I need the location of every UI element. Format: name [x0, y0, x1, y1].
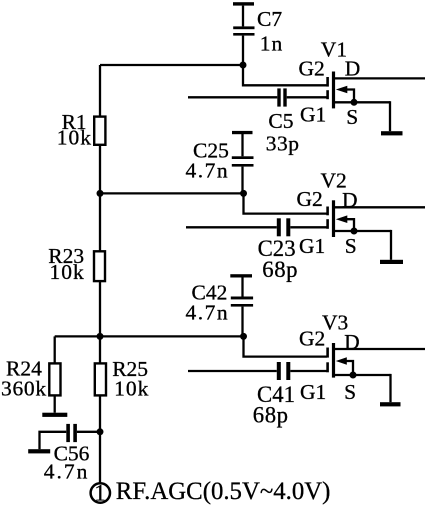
label R1: [62, 110, 87, 134]
svg-text:D: D: [345, 57, 361, 81]
node junction bus/stage2: [97, 190, 104, 197]
label D of V3: [344, 330, 360, 354]
wire source-to-ground V3: [389, 374, 391, 402]
wire stage2 rail to C25: [100, 192, 245, 194]
wire bus R25-to-node1 segment: [99, 395, 101, 484]
wire source-to-ground V2: [390, 230, 392, 260]
label D of V1: [345, 57, 361, 81]
ground above C7: [233, 2, 254, 5]
label G1 of V3: [300, 380, 326, 404]
svg-text:68p: 68p: [253, 402, 289, 427]
svg-text:1: 1: [94, 481, 106, 506]
label C5 value 33p: [266, 132, 300, 156]
svg-text:33p: 33p: [266, 132, 300, 156]
wire G1 input V1: [188, 96, 277, 98]
svg-text:C7: C7: [257, 7, 282, 31]
wire C56 left elbow: [40, 432, 67, 449]
label C56: [54, 442, 90, 466]
ground V2 source: [380, 260, 403, 264]
label R25 value 10k: [114, 376, 149, 400]
label S of V2: [345, 234, 357, 258]
wire R24 top stem: [54, 336, 56, 364]
label C42: [192, 281, 228, 305]
wire source-to-ground V1: [389, 101, 391, 131]
wire bus R23-to-R25 segment: [99, 280, 101, 364]
wire bus top segment: [99, 65, 101, 118]
svg-text:4.7n: 4.7n: [186, 300, 230, 324]
svg-text:C5: C5: [268, 109, 293, 133]
wire drain V1: [335, 77, 425, 79]
resistor R23: [94, 251, 105, 281]
node junction C56/bus: [97, 428, 104, 435]
label C7 value 1n: [260, 32, 284, 56]
transistor V1: [328, 72, 390, 109]
label C41: [257, 382, 295, 407]
label V1: [321, 38, 347, 62]
svg-text:RF.AGC(0.5V~4.0V): RF.AGC(0.5V~4.0V): [116, 478, 331, 505]
wire C56 to bus: [77, 431, 100, 433]
node junction C25: [240, 190, 247, 197]
ground left of C56: [28, 449, 50, 453]
resistor R25: [95, 363, 106, 395]
label G2 of V2: [297, 187, 323, 211]
node junction bus/stage3: [97, 333, 104, 340]
wire drain V2: [335, 206, 425, 208]
capacitor C25: [232, 134, 254, 193]
wire bus R1-to-R23 segment: [99, 144, 101, 253]
svg-text:4.7n: 4.7n: [44, 459, 90, 483]
svg-text:G2: G2: [299, 327, 325, 351]
capacitor C7: [233, 6, 254, 65]
svg-text:S: S: [345, 234, 357, 258]
ground above C42: [230, 274, 252, 277]
capacitor C23: [277, 218, 291, 236]
wire top rail to C7: [100, 64, 244, 66]
label RF.AGC input: [116, 478, 331, 505]
label C56 value 4.7n: [44, 459, 90, 483]
svg-text:G2: G2: [297, 187, 323, 211]
capacitor C5: [277, 88, 286, 106]
wire C41 to G1 V3: [290, 370, 327, 372]
label R23 value 10k: [50, 260, 85, 284]
label G2 of V3: [299, 327, 325, 351]
label V3: [322, 311, 348, 335]
svg-text:G1: G1: [299, 234, 325, 258]
label C7: [257, 7, 282, 31]
wire R24 bottom stem: [54, 395, 56, 413]
capacitor C41: [277, 362, 291, 380]
ground above C25: [232, 131, 253, 134]
label R25: [112, 357, 148, 381]
label R23: [48, 244, 84, 268]
resistor R1: [94, 117, 105, 145]
wire G1 input V3: [188, 370, 277, 372]
svg-text:D: D: [344, 330, 360, 354]
capacitor C42: [231, 277, 253, 336]
label V2: [321, 169, 347, 193]
wire C5 to G1 V1: [287, 96, 327, 98]
label C41 value 68p: [253, 402, 289, 427]
label G1 of V2: [299, 234, 325, 258]
label C5: [268, 109, 293, 133]
node junction C42: [240, 333, 247, 340]
transistor V2: [328, 200, 391, 237]
label C23: [258, 236, 296, 261]
svg-text:68p: 68p: [262, 257, 298, 282]
wire stage3 rail R24-to-C42: [55, 335, 245, 337]
label S of V1: [346, 105, 358, 129]
svg-text:G1: G1: [300, 103, 326, 127]
resistor R24: [49, 363, 60, 395]
svg-text:10k: 10k: [114, 376, 149, 400]
label C25: [193, 138, 229, 162]
wire drain V3: [335, 348, 425, 350]
svg-text:360k: 360k: [1, 376, 47, 400]
wire G2 drop V3: [244, 335, 327, 356]
label C23 value 68p: [262, 257, 298, 282]
label R24 value 360k: [1, 376, 47, 400]
node 1 terminal circle: [91, 483, 110, 502]
label G1 of V1: [300, 103, 326, 127]
svg-text:G2: G2: [299, 57, 325, 81]
node junction C7/bus: [240, 62, 247, 69]
ground V1 source: [381, 131, 403, 135]
wire G2 drop V2: [244, 192, 327, 213]
wire C23 to G1 V2: [290, 226, 327, 228]
transistor V3: [328, 343, 391, 379]
ground V3 source: [380, 402, 401, 406]
label C42 value 4.7n: [186, 300, 230, 324]
wire G1 input V2: [186, 226, 277, 228]
label S of V3: [344, 380, 356, 404]
svg-text:10k: 10k: [57, 126, 92, 150]
label G2 of V1: [299, 57, 325, 81]
wire G2 drop V1: [243, 64, 327, 86]
label D of V2: [342, 188, 358, 212]
svg-text:10k: 10k: [50, 260, 85, 284]
svg-text:G1: G1: [300, 380, 326, 404]
svg-text:S: S: [346, 105, 358, 129]
label R1 value 10k: [57, 126, 92, 150]
capacitor C56: [66, 424, 77, 442]
label R24: [6, 357, 42, 381]
svg-text:4.7n: 4.7n: [186, 158, 230, 182]
ground below R24: [42, 413, 67, 417]
svg-text:S: S: [344, 380, 356, 404]
label 1 in node circle: [94, 481, 106, 506]
svg-text:1n: 1n: [260, 32, 284, 56]
label C25 value 4.7n: [186, 158, 230, 182]
